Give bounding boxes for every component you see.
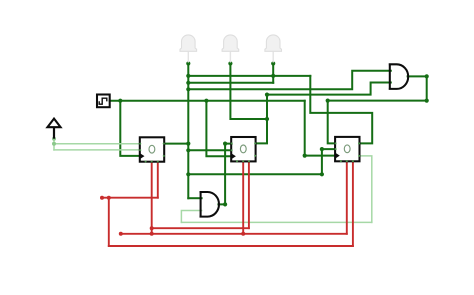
node LED3 stem junction: [271, 74, 275, 78]
flip-flop FF2: [231, 137, 257, 162]
node clock-FF3 corner: [303, 154, 307, 158]
wire LED2 stem: [230, 64, 267, 120]
node LED3 pin: [271, 61, 275, 65]
node Q1-FF2K junction: [186, 148, 190, 152]
node Q2 corner junction: [265, 93, 269, 97]
node Q1 y83 junction: [186, 81, 190, 85]
wire Q1 to AND2 top input: [188, 197, 201, 199]
wire clock to FF2 clk: [206, 101, 231, 157]
node red y234 end: [119, 232, 123, 236]
wire AND2 output: [218, 144, 231, 205]
wire power vertical light green: [53, 139, 55, 150]
node Q1 y76 junction: [186, 74, 190, 78]
wire Q1 main vertical LED1 stem: [187, 64, 189, 199]
wire Q3bar to AND2 bottom: [181, 211, 201, 223]
wire clock to FF1 clk: [120, 101, 140, 156]
wire error red bottom long y246: [109, 245, 353, 247]
node red FF1mid end: [150, 232, 154, 236]
wire Q1 to FF2 K: [188, 149, 231, 151]
node Q1-y174 junction: [186, 172, 190, 176]
wire power to FF1 J: [54, 143, 140, 145]
wire Q3bar long bottom: [181, 221, 371, 223]
wire Q1 branch y89 to AND1 top: [188, 71, 390, 90]
wire Q2 from FF2: [256, 95, 267, 144]
wire Q3bar from FF3: [359, 156, 372, 223]
node red FF1mid branch: [150, 226, 154, 230]
wire clock main horizontal: [110, 100, 305, 102]
node clock-FF2 junction: [204, 99, 208, 103]
node AND2out corner: [223, 202, 227, 206]
wire Q2 to AND1 bottom: [267, 83, 391, 95]
wire error red FF2 mid stem: [242, 162, 244, 234]
node Q1 y89 junction: [186, 87, 190, 91]
wire error red stub left: [102, 197, 158, 199]
flip-flop FF3: [334, 137, 360, 162]
node AND2-FF2J corner: [223, 142, 227, 146]
wire Q3 top long y76: [188, 75, 310, 77]
node LED2 pin: [228, 61, 232, 65]
wire power to FF1 K: [54, 149, 140, 151]
wire error red FF1 mid stem: [151, 162, 153, 234]
node AND1out corner a: [425, 74, 429, 78]
wire AND1 output: [408, 76, 427, 100]
wire error red FF1 right stem: [157, 162, 159, 198]
wire LED3 stem: [272, 64, 274, 83]
power V1 supply: [47, 119, 60, 139]
wire error red y234 long: [121, 233, 347, 235]
wire error red FF2 right stem: [248, 162, 250, 229]
node LED1 pin: [186, 61, 190, 65]
clock CLK1: [97, 95, 110, 108]
node power branch junction: [52, 142, 56, 146]
wire error red y228: [152, 227, 249, 229]
node FF3K riser junction: [320, 147, 324, 151]
node AND1out riser junction: [326, 99, 330, 103]
node y174 end junction: [320, 172, 324, 176]
flip-flop FF1: [139, 137, 165, 162]
node red T junction left: [107, 196, 111, 200]
wire AND1 out return y100: [328, 100, 427, 102]
wire error red left vertical: [108, 198, 110, 246]
LED L3: [265, 35, 282, 63]
AND gate U2 bottom middle: [200, 192, 220, 217]
wire Q1 from FF1: [164, 143, 188, 145]
wire error red FF3 right stem: [352, 162, 354, 246]
op-amp like AND gate U1 top right: [389, 64, 408, 89]
node power pin: [52, 137, 56, 141]
node clock-FF1 junction: [118, 99, 122, 103]
wire Q1 branch y83 to LED3: [188, 82, 273, 84]
LED L1: [180, 35, 197, 63]
node Q1 in junction: [186, 142, 190, 146]
LED L2: [222, 35, 239, 63]
node Q2-LED2 junction: [265, 117, 269, 121]
node red FF2mid end: [241, 232, 245, 236]
wire Q3 riser x310: [310, 76, 372, 143]
node AND1out corner b: [425, 99, 429, 103]
wire AND1 out to FF3 J: [328, 101, 335, 144]
wire clock to FF3 clk: [305, 101, 335, 156]
wire Q1 long branch y174: [188, 173, 322, 175]
node red stub end: [100, 196, 104, 200]
wire Q1 riser to FF3 K: [322, 149, 335, 174]
wire error red FF3 mid stem: [346, 162, 348, 234]
